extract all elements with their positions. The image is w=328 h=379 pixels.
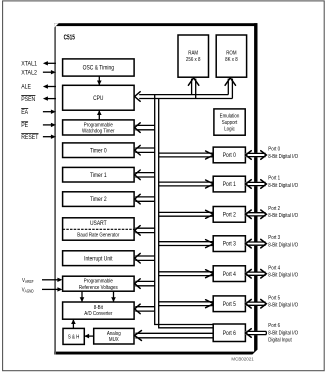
bus: CPU to RAM/ROM horizontal double line [139, 94, 228, 96]
bus arrow to Port 4 [159, 271, 213, 273]
svg-text:Port 3: Port 3 [223, 242, 237, 248]
svg-text:Port 5: Port 5 [223, 302, 237, 308]
svg-text:Port 3: Port 3 [268, 235, 280, 241]
svg-text:Port 2: Port 2 [223, 212, 237, 218]
svg-text:8-Bit Digital I/O: 8-Bit Digital I/O [268, 213, 298, 219]
block Port 1 [213, 176, 245, 192]
pin ALE [48, 86, 56, 88]
bus arrow into Interrupt Unit [135, 255, 154, 257]
block Port 5 [213, 296, 245, 312]
svg-text:ALE: ALE [21, 84, 31, 91]
svg-text:8-Bit Digital I/O: 8-Bit Digital I/O [268, 154, 298, 160]
svg-text:USART: USART [90, 221, 107, 227]
svg-text:Watchdog Timer: Watchdog Timer [82, 129, 115, 135]
block OSC & Timing [63, 59, 135, 76]
svg-text:A/D Converter: A/D Converter [84, 311, 112, 317]
block Port 2 [213, 207, 245, 223]
block Analog MUX [94, 328, 134, 344]
block Port 0 [213, 147, 245, 163]
svg-text:Port 4: Port 4 [223, 272, 237, 278]
block Timer 1 [63, 167, 135, 182]
vertical bus double line [155, 95, 214, 325]
arrow MUX to S&H [85, 335, 94, 337]
svg-text:PSEN: PSEN [21, 96, 35, 103]
external I/O arrow Port 1 [246, 182, 267, 186]
svg-text:XTAL2: XTAL2 [21, 69, 37, 76]
svg-text:Digital Input: Digital Input [268, 338, 292, 344]
svg-text:PE: PE [21, 122, 28, 129]
bus riser into RAM [191, 79, 193, 95]
pin EA [43, 111, 51, 113]
svg-text:Timer 2: Timer 2 [90, 197, 107, 203]
lines Port6 to Analog MUX with arrow [135, 332, 213, 334]
block ROM 8Kx8 [216, 35, 246, 77]
block Programmable Reference Voltages [63, 276, 135, 291]
bus arrow into Reference Voltages [135, 280, 154, 282]
block Timer 0 [63, 143, 135, 158]
block CPU [63, 85, 135, 110]
svg-text:OSC & Timing: OSC & Timing [83, 66, 114, 72]
block Programmable Watchdog Timer [63, 120, 135, 135]
pin VAREF [42, 279, 58, 281]
svg-text:Port 4: Port 4 [268, 265, 280, 271]
bus arrow to Port 5 [159, 301, 213, 303]
svg-text:ROM: ROM [226, 50, 237, 56]
svg-text:Port 6: Port 6 [268, 323, 280, 329]
svg-text:8-Bit Digital I/O: 8-Bit Digital I/O [268, 330, 298, 336]
svg-text:8-Bit Digital I/O: 8-Bit Digital I/O [268, 183, 298, 189]
pin XTAL1 [48, 62, 56, 64]
svg-text:Port 1: Port 1 [268, 176, 280, 182]
block Timer 2 [63, 192, 135, 207]
svg-text:Interrupt Unit: Interrupt Unit [84, 256, 113, 262]
block Port 4 [213, 266, 245, 282]
svg-text:8-Bit Digital I/O: 8-Bit Digital I/O [268, 273, 298, 279]
block Interrupt Unit [63, 251, 135, 266]
bus arrow into Timer 1 [135, 172, 154, 174]
bus riser into ROM [227, 79, 229, 95]
block Port 6 [213, 324, 245, 342]
pin PE [43, 124, 51, 126]
svg-text:CPU: CPU [93, 96, 103, 102]
pin VAGND [42, 288, 58, 290]
svg-text:RESET: RESET [21, 134, 38, 141]
block USART / Baud Rate Generator [63, 218, 135, 240]
svg-text:Reference Voltages: Reference Voltages [79, 285, 118, 291]
svg-text:Baud Rate Generator: Baud Rate Generator [77, 233, 119, 239]
external input arrow Port 6 [246, 331, 267, 335]
svg-text:8-Bit: 8-Bit [94, 305, 104, 311]
bus arrow into USART [135, 227, 154, 229]
external I/O arrow Port 2 [246, 212, 267, 216]
svg-text:Timer 1: Timer 1 [90, 173, 107, 179]
svg-text:8K x 8: 8K x 8 [225, 57, 238, 63]
block RAM 256x8 [178, 35, 209, 77]
svg-text:XTAL1: XTAL1 [21, 61, 37, 68]
svg-text:VAREF: VAREF [22, 278, 34, 284]
svg-text:Port 1: Port 1 [223, 182, 237, 188]
svg-text:8-Bit Digital I/O: 8-Bit Digital I/O [268, 303, 298, 309]
svg-text:Logic: Logic [224, 126, 235, 132]
svg-text:Programmable: Programmable [84, 279, 113, 285]
svg-text:MUX: MUX [109, 337, 119, 343]
bus arrow into Watchdog [135, 124, 154, 126]
svg-text:Emulation: Emulation [220, 113, 240, 119]
pin XTAL2 [43, 71, 51, 73]
svg-text:C515: C515 [64, 32, 75, 41]
pin PSEN [48, 98, 56, 100]
svg-text:RAM: RAM [188, 50, 198, 56]
bus arrow to Port 1 [159, 181, 213, 183]
bus arrow into Timer 0 [135, 147, 154, 149]
block Port 3 [213, 236, 245, 252]
arrows Reference Voltages to A/D [81, 291, 83, 301]
bus arrow to Port 3 [159, 241, 213, 243]
svg-text:EA: EA [21, 109, 29, 116]
bus arrow into CPU [135, 92, 141, 102]
block S & H [63, 328, 84, 344]
chip outline box C515 [54, 23, 257, 354]
svg-text:Port 2: Port 2 [268, 206, 280, 212]
arrow S&H to A/D [72, 320, 74, 329]
block Emulation Support Logic [214, 109, 245, 135]
svg-text:MCB02021: MCB02021 [231, 357, 254, 363]
external I/O arrow Port 3 [246, 242, 267, 246]
svg-text:Analog: Analog [107, 331, 121, 337]
arrow Watchdog to CPU [98, 111, 100, 120]
svg-text:Programmable: Programmable [84, 122, 113, 128]
bus arrow to Port 0 [159, 152, 213, 154]
external I/O arrow Port 5 [246, 302, 267, 306]
svg-text:Port 6: Port 6 [223, 331, 237, 337]
arrow OSC to CPU [98, 76, 100, 85]
svg-text:8-Bit Digital I/O: 8-Bit Digital I/O [268, 242, 298, 248]
svg-text:Port 5: Port 5 [268, 295, 280, 301]
bus arrow into A/D Converter [135, 306, 154, 308]
bus arrow into Timer 2 [135, 196, 154, 198]
svg-text:S & H: S & H [68, 335, 80, 341]
svg-text:Port 0: Port 0 [268, 147, 280, 153]
svg-text:256 x 8: 256 x 8 [186, 57, 201, 63]
block 8-Bit A/D Converter [63, 302, 135, 319]
bus arrow to Port 2 [159, 211, 213, 213]
pin RESET [43, 136, 51, 138]
external I/O arrow Port 4 [246, 272, 267, 276]
svg-text:Port 0: Port 0 [223, 153, 237, 159]
external I/O arrow Port 0 [246, 153, 267, 157]
svg-text:Support: Support [222, 120, 238, 126]
svg-text:VAGND: VAGND [22, 288, 34, 294]
svg-text:Timer 0: Timer 0 [90, 148, 107, 154]
